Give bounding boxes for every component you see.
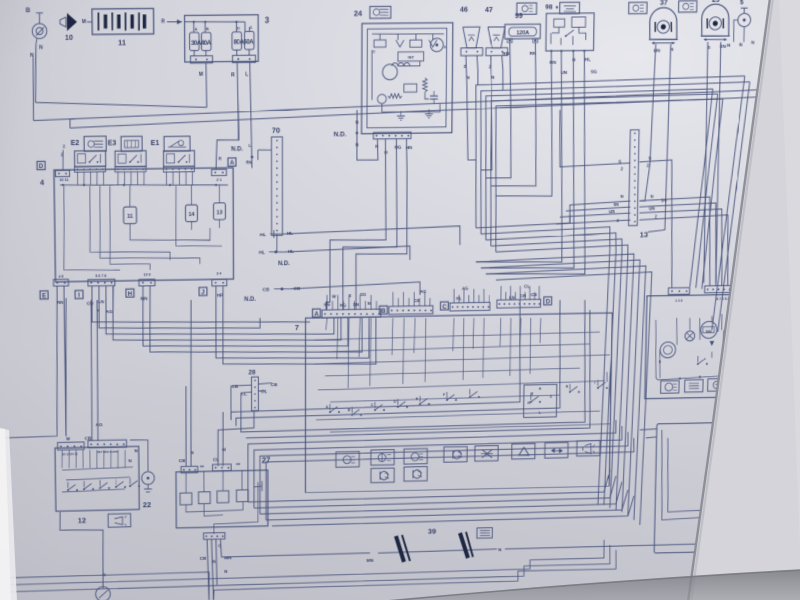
svg-text:MN: MN [225, 555, 233, 561]
ground component 8 [36, 12, 43, 14]
svg-text:*: * [555, 4, 558, 13]
svg-text:N: N [572, 57, 576, 63]
wire left long [0, 430, 57, 438]
wire R from fusebox [237, 63, 238, 132]
headlight 23 [701, 4, 729, 36]
svg-text:10: 10 [65, 33, 73, 42]
fuse 60A [245, 31, 255, 49]
svg-text:HP: HP [217, 293, 223, 299]
34 gauge right2 [745, 336, 760, 351]
svg-text:HL: HL [260, 232, 266, 238]
svg-text:J: J [201, 289, 205, 296]
svg-text:INT: INT [735, 527, 741, 531]
12 strip 1 [58, 442, 85, 450]
box7 switch E [419, 403, 421, 405]
bottom-left white sliver (page underneath) [0, 428, 17, 600]
bus wire upper [33, 90, 757, 121]
fuse 40A [201, 32, 211, 50]
svg-text:30A40A: 30A40A [191, 40, 212, 47]
svg-text:SN: SN [661, 198, 667, 203]
relay E3 [115, 151, 146, 167]
bundle D3 [260, 432, 628, 514]
box4 bus [60, 183, 228, 187]
fuse 80A [232, 32, 242, 50]
pill 11 [123, 207, 136, 224]
svg-text:R: R [566, 385, 569, 389]
svg-text:N: N [134, 448, 138, 454]
svg-text:RN: RN [246, 160, 252, 165]
svg-text:CL: CL [213, 457, 219, 463]
ground 22 wire [130, 440, 148, 472]
fan 47 connector [486, 48, 508, 56]
HL wire 2 [284, 246, 410, 262]
box 7 outline [305, 313, 612, 492]
svg-text:M: M [222, 447, 226, 453]
box 24 outline [362, 23, 453, 134]
box7 switch G [469, 396, 471, 398]
27 inner wires [185, 473, 187, 493]
svg-text:E3: E3 [108, 138, 117, 147]
bottom wire 1 [0, 572, 209, 600]
svg-text:M: M [199, 72, 203, 78]
24 resistor block a [374, 40, 386, 47]
wire N 24 [357, 110, 378, 160]
left bus drop [64, 298, 68, 436]
box7 switch A [329, 411, 331, 413]
svg-text:RN: RN [57, 300, 64, 306]
wire A5 [143, 283, 349, 350]
strip A drops [326, 295, 328, 310]
26 icon [737, 557, 756, 570]
bundle C4 [246, 310, 592, 438]
wire 46a [466, 56, 468, 85]
26 inner box [715, 486, 781, 543]
fan 46 [463, 27, 480, 48]
bundle F1 [474, 76, 744, 228]
12 inner rails [62, 467, 133, 470]
box 24 inner border [367, 28, 447, 128]
svg-text:labe: labe [706, 330, 712, 334]
svg-text:N: N [39, 45, 43, 51]
svg-text:N: N [190, 450, 194, 456]
13 wire N right [638, 197, 712, 287]
svg-text:A: A [195, 26, 198, 31]
icon dlamp [444, 447, 467, 463]
svg-text:UN: UN [609, 209, 615, 214]
27 sq 3 [217, 491, 229, 503]
wire CB 12 [90, 300, 92, 441]
boxed D [37, 161, 45, 169]
fusebox connector left [190, 56, 212, 63]
98 pins [550, 50, 552, 52]
27 bottom strip [204, 533, 225, 540]
left vertical wire [33, 57, 35, 121]
svg-text:4: 4 [40, 178, 45, 187]
wire 98c [481, 52, 577, 269]
svg-text:4 5: 4 5 [58, 275, 63, 279]
pill 14 [185, 205, 197, 222]
wire to26 b [646, 437, 657, 438]
svg-text:MN: MN [140, 296, 148, 302]
right vertical 3 [690, 89, 713, 287]
svg-text:N.D.: N.D. [278, 260, 290, 267]
svg-text:L: L [249, 143, 252, 148]
34 icon 2 [685, 380, 703, 393]
boxed H [126, 289, 134, 297]
wire HN 24 [356, 139, 408, 310]
27 strip 2 [213, 464, 232, 471]
svg-text:E: E [42, 293, 46, 300]
wire E2 pin [96, 172, 98, 185]
svg-text:23: 23 [712, 0, 720, 4]
bundle B3 [483, 233, 616, 508]
svg-text:SG: SG [360, 292, 367, 297]
bundle B8 [483, 266, 646, 523]
wire E1 pin [185, 172, 187, 185]
24 bottom strip [373, 132, 411, 139]
right vertical 5 [702, 99, 723, 289]
svg-text:N: N [650, 194, 653, 199]
svg-text:8 7 6 5 4 3 2 1: 8 7 6 5 4 3 2 1 [716, 297, 737, 301]
strip B drops [392, 292, 394, 306]
HL wire long [283, 226, 460, 248]
wire A8 [223, 284, 377, 367]
bundle F2 [479, 82, 749, 234]
svg-text:2: 2 [63, 144, 66, 149]
connector 70 [271, 137, 282, 236]
wire E3 pin [143, 172, 145, 185]
wire 70 down [276, 234, 278, 252]
icon box E1 [164, 136, 190, 151]
strip C [450, 302, 490, 311]
fusebox top bus [185, 21, 245, 22]
bundle F3 [484, 89, 712, 240]
box4 bottom strip 2 [88, 279, 115, 286]
battery 11 [92, 8, 154, 34]
svg-text:46: 46 [460, 5, 468, 14]
svg-text:A: A [314, 311, 319, 318]
area right of the page edge (next page, lighter) [688, 0, 800, 600]
component 5 [741, 7, 748, 9]
svg-text:N: N [212, 559, 216, 565]
wire HG 24 [343, 139, 398, 310]
wire 47a [481, 56, 493, 170]
box7 relay box [524, 384, 557, 417]
svg-text:W: W [332, 294, 337, 299]
svg-text:120A: 120A [517, 30, 530, 36]
bottom wire 3 [0, 545, 610, 592]
wire E1 pin [178, 171, 180, 185]
svg-text:N: N [224, 569, 228, 575]
boxed A tag [228, 158, 236, 166]
27 sq 2 [199, 492, 211, 504]
bundle B2 [478, 227, 610, 508]
box 27 outline [176, 470, 268, 528]
24 diodes [396, 40, 404, 47]
page right edge line [688, 0, 770, 600]
bundle B5 [493, 245, 628, 513]
wire CB [753, 390, 757, 461]
relay E2 [74, 151, 105, 167]
box 12 outline [55, 446, 139, 511]
boxed J [199, 287, 207, 295]
bundle C3 [241, 300, 587, 432]
wire E1 pin [172, 171, 174, 185]
wire A1 [92, 283, 310, 326]
svg-text:A: A [762, 331, 765, 335]
wire A4 [112, 282, 341, 344]
wire 39 mid [378, 549, 497, 553]
svg-text:13: 13 [640, 230, 649, 239]
icon lamp [404, 449, 427, 465]
wire A2 [99, 283, 260, 330]
svg-text:7: 7 [295, 323, 299, 332]
wire A3 [105, 282, 334, 337]
boxed I [75, 290, 83, 298]
bundle B9 [493, 272, 652, 528]
svg-text:24: 24 [354, 9, 363, 18]
connector 13 strip [629, 130, 640, 226]
icon lamp [336, 452, 359, 468]
box 26 outer [654, 421, 782, 553]
arrow into fusebox [167, 21, 182, 23]
box4 bottom strip 1 [53, 279, 68, 286]
34 bottom rail [658, 373, 770, 380]
wire 99a [486, 42, 513, 178]
bottom page edge and surface below [376, 570, 800, 600]
right vertical 1 [712, 76, 745, 330]
svg-text:RN: RN [550, 60, 557, 66]
wire 23b [715, 42, 722, 283]
svg-text:AG: AG [420, 289, 427, 294]
svg-text:AG: AG [106, 309, 113, 315]
fan 46 connector [461, 48, 483, 56]
wire E2 pin [76, 171, 78, 184]
svg-text:I: I [594, 381, 595, 385]
wire E2 pin [83, 171, 85, 184]
relay E1 [163, 151, 194, 167]
wire C [743, 392, 747, 461]
svg-text:M: M [66, 436, 70, 442]
svg-text:I: I [78, 292, 80, 299]
icon xlamp [475, 446, 498, 462]
wire E3 pin [117, 171, 119, 185]
bundle B7 [478, 260, 640, 518]
24 motor circle [430, 38, 443, 51]
svg-text:2: 2 [621, 166, 624, 172]
wire E3 pin [130, 172, 132, 185]
right vertical 4 [696, 94, 718, 288]
34 strip a [668, 288, 689, 295]
svg-text:10 11: 10 11 [59, 177, 69, 182]
svg-text:2: 2 [647, 163, 650, 169]
bundle B1 [476, 215, 570, 228]
svg-text:N: N [751, 40, 755, 46]
wire E2 pin [102, 172, 104, 185]
svg-text:2 1: 2 1 [216, 177, 222, 182]
svg-text:N: N [355, 120, 358, 125]
bus wire lower [70, 119, 75, 128]
svg-text:N.D.: N.D. [334, 131, 347, 138]
wire 47b [502, 56, 504, 90]
box7 switch F [446, 399, 448, 401]
svg-text:10 9: 10 9 [143, 273, 150, 277]
svg-text:N: N [739, 42, 743, 48]
strip D [497, 299, 541, 308]
svg-text:26: 26 [720, 559, 728, 568]
svg-text:34: 34 [718, 402, 727, 411]
svg-text:RN: RN [503, 51, 510, 57]
icon box E3 [121, 136, 142, 151]
svg-text:C: C [250, 25, 253, 30]
svg-text:AG: AG [95, 422, 102, 428]
svg-text:3: 3 [265, 16, 270, 25]
wire E3 pin [123, 171, 125, 184]
svg-text:A: A [539, 386, 542, 391]
box4 bottom strip 3 [139, 279, 155, 286]
svg-text:C: C [772, 525, 775, 529]
bundle E1 [248, 470, 610, 502]
icon box mid [517, 3, 537, 15]
box7 switch C [374, 409, 376, 411]
top-left darker corner [0, 0, 165, 100]
svg-text:N: N [355, 142, 358, 147]
svg-text:R: R [231, 72, 235, 78]
box7 inner rails [315, 332, 600, 340]
icon box 98 [560, 2, 580, 13]
svg-text:B: B [26, 7, 31, 14]
box4 inner wires [130, 228, 210, 241]
svg-text:B: B [348, 408, 351, 412]
svg-text:D: D [394, 400, 397, 404]
98 internals [554, 19, 565, 27]
bundle D1 [248, 420, 616, 502]
ground 22 [142, 472, 155, 485]
svg-text:N: N [367, 301, 370, 306]
bundle D2 [254, 426, 622, 508]
13 wire UN [560, 213, 630, 217]
13 wire S right [637, 160, 675, 289]
27 strip 1 [181, 466, 198, 473]
icon lamp4 [404, 467, 427, 482]
svg-text:N: N [491, 75, 495, 81]
13 wire N [570, 201, 631, 223]
svg-text:N: N [747, 447, 751, 453]
wire box4 b1 [55, 286, 59, 430]
svg-text:CB: CB [232, 384, 239, 390]
svg-text:F: F [443, 393, 446, 397]
svg-text:11: 11 [118, 38, 127, 47]
svg-text:CB: CB [263, 287, 270, 293]
svg-text:3 4: 3 4 [217, 272, 223, 276]
boxed E [40, 291, 48, 299]
box 34 outline [645, 294, 780, 399]
svg-text:B: B [206, 26, 209, 31]
svg-text:SN: SN [613, 202, 619, 207]
13 wire S [559, 109, 631, 167]
svg-text:INT 50/b P.ABB: INT 50/b P.ABB [97, 450, 119, 454]
svg-text:13: 13 [216, 210, 222, 216]
wire M horizontal [36, 101, 207, 110]
strip A [322, 309, 381, 318]
wire N from 8 down [35, 44, 37, 102]
svg-text:99: 99 [515, 11, 523, 20]
svg-text:UN: UN [654, 48, 661, 54]
brush 39 a [396, 536, 404, 562]
34 gauge right [761, 315, 777, 331]
svg-text:B: B [381, 308, 386, 315]
bundle E4 [266, 490, 628, 520]
12 strip 2 [88, 440, 126, 448]
svg-text:R: R [161, 19, 165, 25]
34 strip b [705, 285, 748, 293]
svg-text:N.D.: N.D. [231, 146, 243, 153]
svg-text:C: C [373, 50, 376, 54]
svg-text:D: D [39, 163, 44, 170]
svg-text:R: R [528, 400, 531, 405]
wire 46b [477, 56, 479, 85]
svg-text:39: 39 [428, 527, 436, 536]
bundle E2 [254, 476, 616, 508]
34 lamp x [685, 331, 695, 341]
27 switch [257, 482, 259, 492]
fan 47 [488, 27, 505, 48]
wire H 24 [326, 139, 386, 310]
svg-text:D: D [546, 299, 551, 306]
13 wire SN right [638, 203, 718, 287]
horn 10 symbol [60, 13, 77, 31]
svg-text:28: 28 [248, 369, 255, 376]
bundle E5 [272, 496, 634, 526]
wire E1 pin [191, 172, 193, 185]
12 switch row [67, 489, 69, 491]
bottom ground [96, 587, 111, 600]
wire 37a [640, 44, 656, 201]
svg-text:E1: E1 [151, 138, 160, 147]
icon tri [512, 444, 535, 460]
svg-text:2: 2 [655, 214, 658, 219]
svg-text:S: S [618, 159, 621, 165]
connector 28 [251, 377, 258, 411]
svg-text:S: S [648, 156, 651, 162]
bottom wire 2 [0, 540, 604, 585]
svg-text:N: N [620, 194, 623, 199]
svg-text:HL: HL [585, 57, 591, 63]
28 wire right [258, 383, 272, 384]
26 motor [745, 510, 759, 524]
26 relay [740, 472, 767, 496]
svg-text:47: 47 [485, 5, 493, 14]
icon lamp2 [371, 450, 394, 466]
26 contact [735, 525, 775, 542]
svg-text:N.D.: N.D. [244, 296, 256, 303]
bundle F4 [489, 94, 718, 246]
svg-text:CL: CL [241, 391, 247, 397]
svg-text:SN: SN [353, 302, 359, 307]
svg-text:MN: MN [367, 558, 374, 564]
svg-text:CB: CB [200, 556, 207, 562]
34 relay [724, 331, 741, 342]
wire 37b [648, 44, 671, 232]
13 wire 2 right [638, 215, 730, 287]
svg-text:14: 14 [188, 212, 195, 218]
svg-text:**: ** [200, 465, 204, 471]
fuse 99 pins [509, 39, 511, 41]
svg-text:11: 11 [127, 214, 133, 220]
svg-text:D: D [779, 309, 782, 313]
fusebox connector right [232, 55, 255, 62]
box7 switch D [397, 406, 399, 408]
